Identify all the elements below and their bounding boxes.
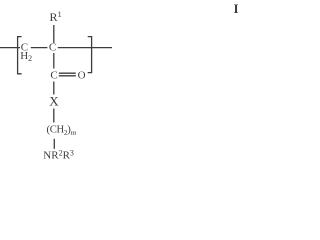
wire left chain extension: [0, 47, 20, 49]
bond carbonyl C to X: [53, 82, 55, 95]
left bracket: [18, 37, 22, 74]
svg-text:C: C: [49, 42, 56, 54]
bond R1 to backbone C: [53, 25, 55, 43]
bond X to (CH2)m: [53, 109, 55, 123]
svg-text:I: I: [234, 1, 239, 16]
svg-text:R1: R1: [50, 9, 62, 24]
double bond C=O upper line: [59, 72, 76, 74]
wire right chain extension: [58, 47, 112, 49]
svg-text:X: X: [49, 93, 59, 108]
bond backbone C to carbonyl C: [53, 53, 55, 69]
svg-text:H2: H2: [20, 50, 32, 63]
svg-text:(CH2)m: (CH2)m: [47, 124, 77, 137]
svg-text:C: C: [50, 69, 57, 81]
bond CH2 to C: [31, 47, 48, 49]
double bond C=O lower line: [59, 75, 76, 77]
svg-text:O: O: [78, 69, 86, 81]
right bracket: [88, 37, 92, 73]
bond (CH2)m to NR2R3: [53, 139, 55, 149]
svg-text:NR2R3: NR2R3: [43, 148, 74, 161]
